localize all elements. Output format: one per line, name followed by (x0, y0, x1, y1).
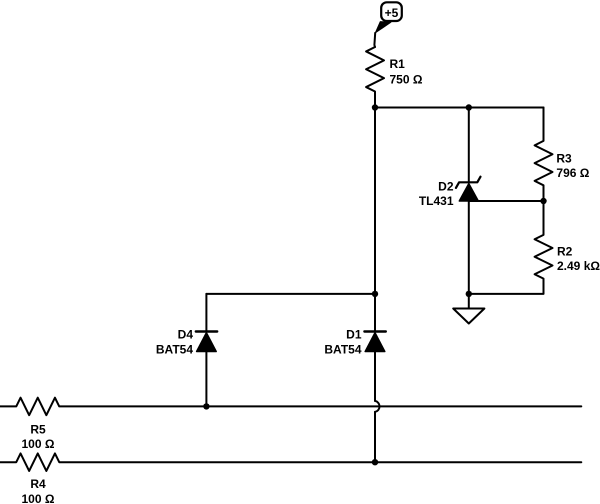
svg-text:BAT54: BAT54 (156, 343, 193, 357)
svg-text:100 Ω: 100 Ω (22, 437, 55, 451)
svg-text:BAT54: BAT54 (324, 343, 361, 357)
svg-text:D2: D2 (438, 179, 454, 193)
svg-text:TL431: TL431 (419, 194, 454, 208)
svg-text:R4: R4 (30, 477, 46, 491)
svg-text:R3: R3 (556, 151, 572, 165)
svg-text:D1: D1 (346, 328, 362, 342)
svg-text:2.49 kΩ: 2.49 kΩ (557, 259, 600, 273)
svg-text:D4: D4 (178, 328, 194, 342)
svg-text:R2: R2 (557, 245, 573, 259)
svg-text:796 Ω: 796 Ω (556, 166, 589, 180)
svg-text:R5: R5 (30, 423, 46, 437)
svg-text:100 Ω: 100 Ω (22, 492, 55, 504)
svg-text:+5: +5 (385, 6, 399, 20)
svg-text:750 Ω: 750 Ω (390, 73, 423, 87)
svg-text:R1: R1 (390, 57, 406, 71)
